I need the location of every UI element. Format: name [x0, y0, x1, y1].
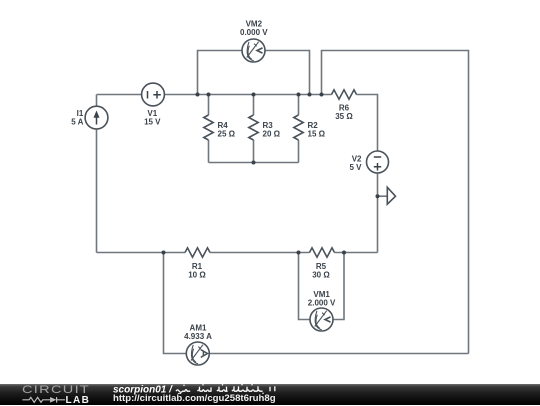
svg-text:20 Ω: 20 Ω: [263, 129, 281, 138]
svg-text:35 Ω: 35 Ω: [335, 112, 353, 121]
svg-text:30 Ω: 30 Ω: [312, 270, 330, 279]
svg-text:15 V: 15 V: [144, 117, 161, 126]
svg-text:0.000 V: 0.000 V: [240, 28, 268, 37]
svg-text:25 Ω: 25 Ω: [218, 129, 236, 138]
svg-text:15 Ω: 15 Ω: [308, 129, 326, 138]
svg-text:5 V: 5 V: [349, 163, 362, 172]
svg-text:5 A: 5 A: [71, 117, 83, 126]
svg-text:10 Ω: 10 Ω: [188, 270, 206, 279]
svg-text:4.933 A: 4.933 A: [184, 332, 212, 341]
svg-text:2.000 V: 2.000 V: [308, 299, 336, 308]
